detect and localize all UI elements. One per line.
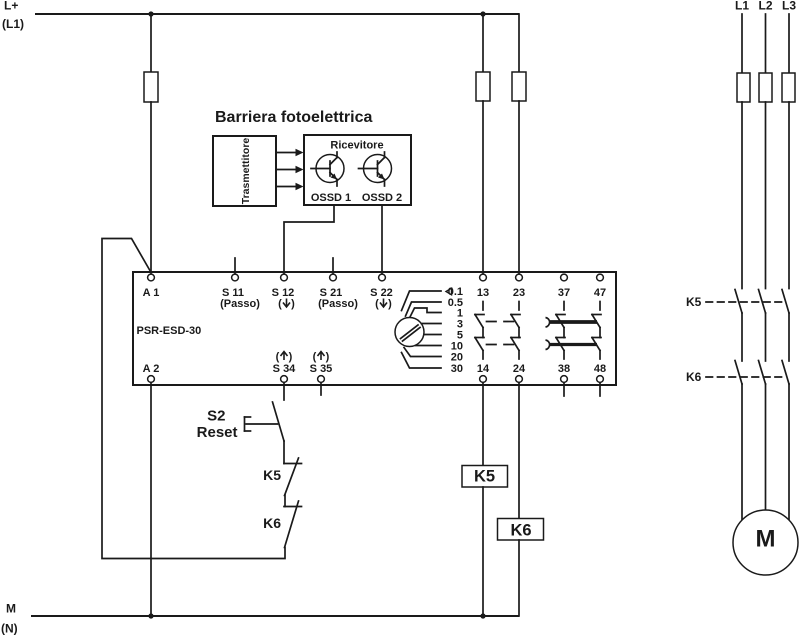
terminal S21 bbox=[318, 258, 358, 310]
relay coil K6 bbox=[498, 519, 544, 541]
mechanical link 13/23 row1 bbox=[487, 321, 515, 323]
terminal 14 bbox=[477, 363, 490, 382]
label K6 with linkage dashes bbox=[686, 370, 785, 384]
light beam arrow 3 bbox=[276, 183, 304, 190]
relay U1 PSR-ESD-30 box bbox=[133, 272, 616, 385]
wire fuse F1 to terminal A1 bbox=[150, 102, 152, 276]
svg-text:47: 47 bbox=[594, 287, 606, 299]
rotary time dial bbox=[395, 318, 424, 347]
svg-text:(: ( bbox=[375, 298, 379, 310]
wire L2 down bbox=[765, 14, 767, 73]
terminal S34 bbox=[273, 351, 297, 382]
node L+ label bbox=[2, 0, 24, 31]
junction at x151 on L+ rail bbox=[148, 11, 153, 16]
delay linkage bar row1 with release-delay arc bbox=[546, 318, 598, 328]
svg-text:S 35: S 35 bbox=[310, 363, 333, 375]
contact 47-48 (NO delayed) bbox=[592, 302, 601, 360]
svg-text:M: M bbox=[756, 526, 776, 553]
svg-text:L+: L+ bbox=[4, 0, 18, 13]
wire L1 down bbox=[741, 14, 743, 73]
motor M bbox=[733, 510, 798, 575]
svg-text:S2: S2 bbox=[207, 408, 225, 425]
wire K5 to K6 pole1 bbox=[741, 313, 743, 361]
contact 37-38 (NO delayed) bbox=[556, 302, 565, 360]
svg-text:24: 24 bbox=[513, 363, 526, 375]
fuse F1 bbox=[144, 72, 158, 102]
svg-text:M: M bbox=[6, 602, 16, 616]
wire M return rail bbox=[31, 615, 519, 617]
contact 23-24 (NO, two in series) bbox=[511, 302, 520, 360]
contact 13-14 (NO, two in series) bbox=[475, 302, 484, 360]
fuse F5 bbox=[759, 73, 772, 102]
terminal 24 bbox=[513, 363, 526, 382]
svg-text:30: 30 bbox=[451, 363, 463, 375]
wire L+ to A1 (upper) bbox=[150, 14, 152, 72]
time setting fan wires bbox=[402, 291, 442, 368]
svg-text:(: ( bbox=[313, 351, 317, 363]
wire fuse F2 to terminal 13 bbox=[482, 101, 484, 276]
svg-text:): ) bbox=[289, 351, 293, 363]
terminal A1 bbox=[143, 274, 160, 299]
svg-text:37: 37 bbox=[558, 287, 570, 299]
wire L+ supply rail bbox=[35, 13, 519, 15]
svg-text:(Passo): (Passo) bbox=[220, 298, 260, 310]
junction K5 line on M rail bbox=[480, 613, 485, 618]
main contact K5 pole2 bbox=[759, 290, 766, 314]
svg-text:PSR-ESD-30: PSR-ESD-30 bbox=[137, 325, 202, 337]
phototransistor OSSD2 bbox=[359, 152, 392, 186]
svg-text:(Passo): (Passo) bbox=[318, 298, 358, 310]
wire OSSD1 to S12 bbox=[284, 206, 334, 276]
NC contact K5 (feedback) bbox=[263, 458, 301, 496]
wire 24 to K6 coil bbox=[518, 383, 520, 519]
svg-text:23: 23 bbox=[513, 287, 525, 299]
junction A2 line on M rail bbox=[148, 613, 153, 618]
svg-text:(: ( bbox=[276, 351, 280, 363]
wire S2 to K5 contact bbox=[283, 441, 285, 464]
wire L2 fuse to K5 contact bbox=[765, 102, 767, 289]
wire K5 to K6 pole3 bbox=[788, 313, 790, 361]
svg-text:): ) bbox=[326, 351, 330, 363]
terminal 23 bbox=[513, 274, 525, 299]
svg-text:A 1: A 1 bbox=[143, 287, 160, 299]
time value labels with selector arrow bbox=[446, 286, 463, 375]
wire K6 pole1 to motor bbox=[741, 384, 743, 521]
terminal S22 bbox=[370, 274, 393, 310]
svg-text:38: 38 bbox=[558, 363, 570, 375]
NC contact K6 (feedback) bbox=[263, 501, 301, 548]
fuse F2 bbox=[476, 72, 490, 101]
pushbutton S2 Reset bbox=[197, 402, 284, 441]
terminal 47 bbox=[594, 274, 606, 299]
wire L+ to 13 (upper) bbox=[482, 14, 484, 72]
junction at x483 on L+ rail bbox=[480, 11, 485, 16]
svg-text:20: 20 bbox=[451, 352, 463, 364]
svg-text:OSSD 2: OSSD 2 bbox=[362, 192, 402, 204]
svg-text:K6: K6 bbox=[686, 370, 702, 384]
node M label bbox=[1, 602, 18, 635]
svg-text:): ) bbox=[291, 298, 295, 310]
svg-text:K6: K6 bbox=[263, 515, 281, 531]
wire S34 down to S2 bbox=[283, 383, 285, 401]
svg-text:S 34: S 34 bbox=[273, 363, 297, 375]
terminal 48 bbox=[594, 363, 606, 396]
wire fuse F3 to terminal 23 bbox=[518, 101, 520, 276]
svg-text:Ricevitore: Ricevitore bbox=[330, 140, 383, 152]
light beam arrow 2 bbox=[276, 166, 304, 173]
wire K6 coil to M rail bbox=[518, 540, 520, 616]
light beam arrow 1 bbox=[276, 149, 304, 156]
fuse F3 bbox=[512, 72, 526, 101]
wire OSSD2 to S22 bbox=[381, 206, 383, 276]
wire L1 fuse to K5 contact bbox=[741, 102, 743, 289]
wire L3 down bbox=[788, 14, 790, 73]
wire L+ to 23 (upper) bbox=[518, 14, 520, 72]
svg-text:L1: L1 bbox=[735, 0, 749, 13]
wire K5 to K6 contact bbox=[284, 495, 286, 507]
wire K6 pole2 to motor bbox=[765, 384, 767, 510]
wire K6 pole3 to motor bbox=[788, 384, 790, 521]
svg-text:K5: K5 bbox=[263, 467, 281, 483]
terminal S12 bbox=[272, 274, 295, 310]
phototransistor OSSD1 bbox=[311, 152, 344, 186]
svg-text:13: 13 bbox=[477, 287, 489, 299]
delay linkage bar row2 with release-delay arc bbox=[546, 340, 598, 350]
svg-text:(L1): (L1) bbox=[2, 17, 24, 31]
svg-text:Trasmettitore: Trasmettitore bbox=[240, 138, 252, 205]
fuse F4 bbox=[737, 73, 750, 102]
wire K5 to K6 pole2 bbox=[765, 313, 767, 361]
svg-text:L3: L3 bbox=[782, 0, 796, 13]
relay coil K5 bbox=[462, 466, 508, 488]
svg-text:Reset: Reset bbox=[197, 424, 238, 441]
mechanical link 13/23 row2 bbox=[487, 344, 515, 346]
svg-text:Barriera fotoelettrica: Barriera fotoelettrica bbox=[215, 109, 372, 126]
terminal S35 bbox=[310, 351, 333, 395]
feedback wire K6 to A1 bbox=[102, 239, 285, 559]
terminal 38 bbox=[558, 363, 570, 396]
svg-text:A 2: A 2 bbox=[143, 363, 160, 375]
svg-text:(N): (N) bbox=[1, 622, 18, 635]
svg-text:K5: K5 bbox=[686, 295, 702, 309]
receiver box (Ricevitore) bbox=[304, 135, 411, 205]
svg-text:OSSD 1: OSSD 1 bbox=[311, 192, 351, 204]
wire 14 to K5 coil bbox=[482, 383, 484, 466]
label K5 with linkage dashes bbox=[686, 295, 785, 309]
main contact K6 pole3 bbox=[782, 361, 789, 385]
terminal 37 bbox=[558, 274, 570, 299]
wire L3 fuse to K5 contact bbox=[788, 102, 790, 289]
svg-text:K6: K6 bbox=[510, 522, 531, 540]
svg-text:): ) bbox=[388, 298, 392, 310]
svg-text:(: ( bbox=[278, 298, 282, 310]
svg-text:L2: L2 bbox=[758, 0, 772, 13]
terminal S11 bbox=[220, 258, 260, 310]
wire K5 coil to M rail bbox=[482, 487, 484, 616]
svg-text:48: 48 bbox=[594, 363, 606, 375]
wire A2 to M rail bbox=[150, 383, 152, 617]
transmitter box (Trasmettitore) bbox=[213, 136, 276, 206]
svg-text:K5: K5 bbox=[474, 468, 495, 486]
terminal 13 bbox=[477, 274, 489, 299]
main contact K6 pole2 bbox=[759, 361, 766, 385]
main contact K6 pole1 bbox=[735, 361, 742, 385]
terminal A2 bbox=[143, 363, 160, 382]
fuse F6 bbox=[782, 73, 795, 102]
main contact K5 pole1 bbox=[735, 290, 742, 314]
svg-text:14: 14 bbox=[477, 363, 490, 375]
main contact K5 pole3 bbox=[782, 290, 789, 314]
